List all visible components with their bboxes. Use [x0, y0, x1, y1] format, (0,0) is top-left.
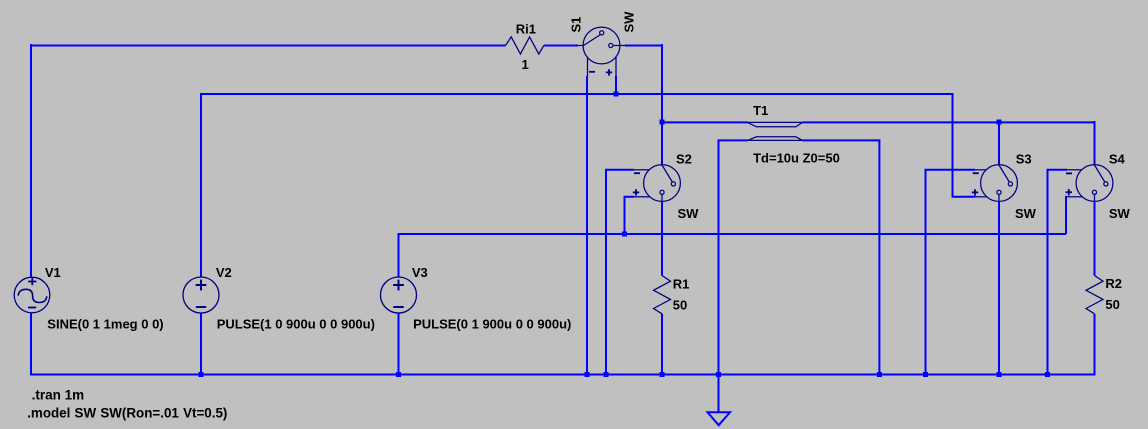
wire Ri1 right to S1 left — [544, 45, 578, 47]
wire S4 bottom to R2 top — [1094, 201, 1096, 276]
svg-text:SINE(0 1 1meg 0 0): SINE(0 1 1meg 0 0) — [47, 316, 163, 331]
wire S4 minus hookup — [1048, 170, 1068, 376]
node rail T1 right leg — [877, 372, 882, 377]
transmission line T1 — [748, 122, 803, 140]
svg-text:Ri1: Ri1 — [516, 22, 536, 37]
node rail S3 minus — [923, 372, 928, 377]
svg-text:PULSE(0 1 900u 0 0 900u): PULSE(0 1 900u 0 0 900u) — [413, 316, 571, 331]
wire S4 plus hookup — [1066, 197, 1067, 234]
svg-text:PULSE(1 0 900u 0 0 900u): PULSE(1 0 900u 0 0 900u) — [217, 316, 375, 331]
switch S4 — [1066, 161, 1113, 202]
wire S2 minus hookup — [606, 170, 634, 376]
wire T1 top row left segment — [662, 121, 748, 123]
resistor R2 — [1086, 276, 1103, 314]
wire S3 top — [998, 122, 1000, 165]
node S2 plus / V3 row — [622, 232, 627, 237]
node rail S1 minus — [585, 372, 590, 377]
wire V2 bottom — [200, 313, 202, 376]
node rail V3 — [396, 372, 401, 377]
node S2 top / T1 row — [660, 120, 665, 125]
svg-text:R2: R2 — [1105, 276, 1122, 291]
svg-text:SW: SW — [622, 11, 637, 33]
wire S3 bottom to rail — [998, 201, 1000, 376]
svg-text:SW: SW — [1015, 206, 1037, 221]
switch S1 (rotated) — [578, 27, 627, 76]
svg-text:1: 1 — [522, 57, 529, 72]
wire S1 plus stub — [615, 76, 617, 94]
svg-text:50: 50 — [1105, 297, 1119, 312]
voltage source V3 (pulse) — [381, 277, 417, 313]
wire R1 bottom to rail — [661, 314, 663, 376]
wire S2 bottom to R1 top — [661, 201, 663, 276]
svg-text:V3: V3 — [412, 265, 428, 280]
svg-text:50: 50 — [673, 298, 687, 313]
wire S2 plus hookup — [625, 197, 635, 234]
wire S3 minus hookup — [926, 170, 976, 376]
svg-text:S1: S1 — [569, 17, 584, 33]
wire V1 top vertical — [30, 44, 32, 277]
svg-text:SW: SW — [678, 206, 700, 221]
wire V1 bottom — [30, 313, 32, 376]
node rail ground — [716, 372, 721, 377]
wire T1 lower-right pin drop — [803, 140, 880, 375]
upper shell — [748, 121, 803, 123]
wire control row V2 horizontal — [200, 93, 953, 95]
wire T1 top row right segment — [803, 121, 1095, 123]
resistor Ri1 — [506, 37, 544, 54]
svg-text:Td=10u Z0=50: Td=10u Z0=50 — [753, 151, 840, 166]
svg-text:.tran 1m: .tran 1m — [32, 388, 85, 403]
svg-text:SW: SW — [1109, 206, 1131, 221]
wire V2 top vertical — [200, 93, 202, 277]
wire R2 bottom to rail — [1094, 314, 1096, 376]
node S1 plus / V2 row — [614, 92, 619, 97]
voltage source V1 (sine) — [14, 277, 50, 313]
svg-text:R1: R1 — [673, 277, 690, 292]
wire S3 plus hookup — [953, 93, 976, 197]
resistor R1 — [654, 276, 671, 314]
svg-text:S3: S3 — [1016, 152, 1032, 167]
voltage source V2 (pulse) — [183, 277, 219, 313]
node rail S2 minus — [604, 372, 609, 377]
wire S1 right to corner — [625, 45, 662, 47]
wire S4 top drop — [1094, 121, 1096, 165]
node S3 top / T1 row — [997, 120, 1002, 125]
wire ground stem — [718, 374, 720, 413]
wire T1 lower-left pin to ground drop — [719, 140, 748, 375]
svg-text:S2: S2 — [676, 152, 692, 167]
wire control row V3 horizontal — [398, 233, 1067, 235]
wire V3 top vertical — [398, 233, 400, 277]
ground triangle — [708, 412, 731, 425]
wire S1 minus drop to rail — [586, 76, 588, 376]
node rail S4 minus — [1045, 372, 1050, 377]
wire ground rail — [30, 374, 1096, 376]
wire V1 top to Ri1 left — [30, 45, 506, 47]
svg-text:S4: S4 — [1109, 152, 1126, 167]
svg-text:T1: T1 — [753, 103, 768, 118]
wire V3 bottom — [398, 313, 400, 376]
lower shell — [748, 139, 803, 141]
svg-text:.model SW SW(Ron=.01 Vt=0.5): .model SW SW(Ron=.01 Vt=0.5) — [27, 405, 227, 420]
switch S3 — [972, 161, 1018, 202]
node rail R1 — [660, 372, 665, 377]
switch S2 — [633, 161, 681, 202]
svg-text:V1: V1 — [45, 265, 61, 280]
wire S2 top — [661, 122, 663, 165]
wire corner down to node at T1 top row — [661, 44, 663, 122]
node rail V2 — [199, 372, 204, 377]
svg-text:V2: V2 — [216, 265, 232, 280]
node rail S3 out — [997, 372, 1002, 377]
